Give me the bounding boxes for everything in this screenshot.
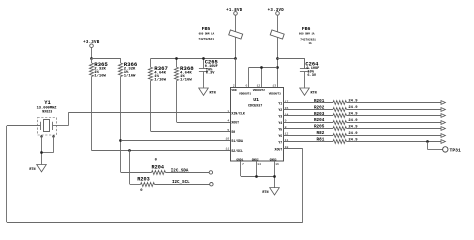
wire R203 to connector (347, 115, 442, 117)
capacitor C264 (300, 58, 309, 87)
pin label VDDOUT3 (269, 93, 281, 96)
svg-text:R204: R204 (152, 165, 164, 171)
pin number 17 (285, 99, 289, 103)
junction vddout2 (260, 66, 263, 69)
wire R205 to connector (347, 128, 442, 130)
ferrite bead FB5 (229, 30, 243, 39)
resistor R366 (118, 58, 122, 76)
off-page arrow Y1 (441, 101, 445, 105)
svg-text:FB6: FB6 (302, 26, 311, 32)
svg-text:12: 12 (257, 83, 261, 87)
wire R367 to S0 (150, 81, 152, 132)
wire XIN (68, 112, 230, 114)
svg-text:13: 13 (272, 83, 276, 87)
svg-text:Y6: Y6 (278, 134, 282, 138)
svg-text:1/16W: 1/16W (94, 74, 106, 79)
svg-text:R205: R205 (314, 125, 325, 130)
wire R81 to connector (347, 141, 442, 143)
svg-text:11: 11 (225, 147, 229, 151)
svg-text:R203: R203 (314, 112, 325, 117)
pin label S0 (231, 130, 235, 134)
svg-text:16: 16 (275, 162, 279, 166)
off-page arrow Y6 (441, 134, 445, 138)
pin label GND1 (236, 158, 243, 161)
svg-text:Y1: Y1 (44, 100, 50, 106)
svg-text:R201: R201 (314, 99, 325, 104)
wire pullup bus left (91, 58, 121, 60)
wire I2C_SCL (155, 184, 210, 186)
wire R202 to connector (347, 109, 442, 111)
pin number 3 (227, 109, 229, 113)
ground U1 (262, 188, 279, 196)
wire R201 to connector (347, 102, 442, 104)
wire S0 (151, 131, 230, 133)
junction gnd2 (255, 175, 258, 178)
pin label GND2 (252, 158, 259, 161)
label R201 (314, 99, 325, 104)
svg-text:GND3: GND3 (270, 158, 277, 161)
svg-text:14: 14 (257, 162, 261, 166)
resistor R201 (333, 101, 347, 105)
label R81 (317, 138, 325, 143)
value R81 24.9 (348, 138, 358, 142)
pin number 16 (275, 162, 279, 166)
off-page arrow Y4 (441, 121, 445, 125)
svg-text:VDD: VDD (231, 89, 236, 92)
svg-text:I2C_SCL: I2C_SCL (172, 181, 190, 185)
wire SCL drop (129, 150, 131, 184)
label C265 (205, 59, 218, 75)
wire vddout row (248, 68, 277, 88)
svg-text:XOUT: XOUT (275, 147, 283, 151)
label R367 (154, 65, 168, 82)
svg-text:2: 2 (233, 83, 235, 87)
wire Y6 out (284, 135, 334, 137)
value R204 24.9 (348, 119, 358, 123)
label C264 (305, 62, 319, 78)
resistor R203 (333, 114, 347, 118)
svg-text:1/16W: 1/16W (124, 74, 136, 79)
pin number 18 (285, 145, 289, 149)
junction FB6 bus (276, 57, 279, 60)
pin label VDD (231, 89, 236, 92)
svg-text:S1/SDA: S1/SDA (231, 139, 243, 143)
junction FB5 bus (234, 57, 237, 60)
label FB5 (198, 26, 214, 41)
wire FB5 to VDD pin (235, 58, 237, 87)
svg-text:R81: R81 (317, 138, 325, 143)
svg-text:4: 4 (227, 118, 229, 122)
svg-text:S0: S0 (231, 130, 235, 134)
svg-text:NX823: NX823 (42, 109, 52, 113)
pin number 14 (285, 112, 289, 116)
wire Y3 out (284, 115, 334, 117)
junction SDA (119, 139, 122, 142)
svg-text:FB5: FB5 (202, 26, 211, 32)
off-page arrow Y5 (441, 127, 445, 131)
ground C264 (300, 88, 317, 96)
label R365 (94, 61, 108, 78)
resistor R203 (130, 183, 155, 187)
wire Y4 out (284, 122, 334, 124)
wire FB6 vertical (277, 15, 279, 87)
wire S1/SDA (121, 140, 230, 142)
label R366 (124, 61, 138, 78)
junction +3.3VB bus (90, 57, 93, 60)
svg-text:TP31: TP31 (450, 147, 461, 153)
junction gnd3 (273, 175, 276, 178)
label FB6 (299, 26, 316, 45)
off-page arrow Y7 (441, 140, 445, 144)
pin number 11 (285, 138, 289, 142)
svg-text:VDDOUT3: VDDOUT3 (269, 93, 281, 96)
svg-text:R204: R204 (314, 118, 325, 123)
svg-text:XOUT: XOUT (231, 121, 239, 125)
ground Y1 (29, 165, 46, 173)
value R82 24.9 (348, 132, 358, 136)
svg-text:1/16W: 1/16W (154, 77, 166, 82)
pin label GND3 (270, 158, 277, 161)
pin number 8 (285, 125, 287, 129)
ferrite bead FB6 (270, 30, 284, 39)
junction C265 bus (202, 57, 205, 60)
svg-text:1A: 1A (309, 42, 313, 45)
crystal Y1 (38, 118, 57, 136)
pin label VDDOUT2 (253, 89, 265, 92)
svg-text:R203: R203 (137, 177, 149, 183)
resistor R365 (89, 58, 93, 76)
wire I2C_SDA (166, 172, 210, 174)
wire Y1 out (284, 102, 334, 104)
svg-text:R82: R82 (317, 131, 325, 136)
off-page arrow Y3 (441, 114, 445, 118)
resistor R367 (148, 58, 152, 80)
net label I2C_SDA (171, 169, 189, 173)
label R203 (314, 112, 325, 117)
node I2C_SDA open (209, 171, 212, 174)
wire Y7 out (284, 141, 334, 143)
capacitor C265 (199, 58, 208, 87)
pin label Y7 (278, 141, 282, 145)
pin number 14 (257, 162, 261, 166)
pin label Y4 (278, 121, 282, 125)
svg-text:6.3V: 6.3V (206, 72, 215, 76)
pin label Y1 (278, 102, 282, 106)
wire TP31 (427, 142, 442, 150)
wire U1 gnd (241, 161, 275, 188)
value R205 24.9 (348, 125, 358, 129)
label R204 (314, 118, 325, 123)
svg-text:VDDOUT1: VDDOUT1 (239, 93, 251, 96)
wire +3.3VB to bus (91, 48, 93, 59)
pin label VDDOUT1 (239, 93, 251, 96)
resistor R81 (333, 140, 347, 144)
label R203 (137, 177, 149, 194)
pin number 4 (227, 118, 229, 122)
value R202 24.9 (348, 106, 358, 110)
pin number 6 (245, 83, 247, 87)
junction FB6 vddout row (276, 66, 279, 69)
svg-text:Y4: Y4 (278, 121, 282, 125)
pin number 12 (285, 132, 289, 136)
wire crystal left lead (7, 125, 40, 127)
off-page arrow Y2 (441, 108, 445, 112)
resistor R82 (333, 134, 347, 138)
wire R365 to SCL (91, 77, 93, 151)
svg-text:10: 10 (225, 137, 229, 141)
resistor R368 (174, 58, 178, 80)
pin label XOUT (231, 121, 239, 125)
svg-text:GND2: GND2 (252, 158, 259, 161)
wire pin4 (177, 122, 230, 124)
wire Y2 out (284, 109, 334, 111)
power symbol +3.3VD (268, 9, 285, 15)
svg-text:0: 0 (140, 189, 143, 193)
svg-text:Y3: Y3 (278, 115, 282, 119)
power symbol +3.3VB (83, 41, 100, 48)
pin number 5 (227, 128, 229, 132)
node I2C_SCL open (210, 183, 213, 186)
pin label S1/SDA (231, 139, 243, 143)
pin label S2/SCL (231, 149, 243, 153)
label R82 (317, 131, 325, 136)
svg-text:0: 0 (155, 159, 158, 163)
pin number 13 (272, 83, 276, 87)
label R202 (314, 105, 325, 110)
svg-text:S2/SCL: S2/SCL (231, 149, 243, 153)
svg-text:CDCE937: CDCE937 (248, 105, 262, 109)
svg-text:VDDOUT2: VDDOUT2 (253, 89, 265, 92)
pin number 11 (225, 147, 229, 151)
wire R204 to connector (347, 122, 442, 124)
wire top bus A (151, 58, 236, 60)
svg-text:6: 6 (245, 83, 247, 87)
label R368 (180, 65, 194, 82)
pin label Y5 (278, 128, 282, 132)
svg-text:600 OHM 1A: 600 OHM 1A (199, 32, 215, 35)
pin number 12 (257, 83, 261, 87)
svg-text:600 OHM 1A: 600 OHM 1A (299, 32, 315, 35)
resistor R202 (333, 108, 347, 112)
power symbol +1.8VD (226, 9, 243, 15)
pin label XIN/CLK (231, 112, 244, 116)
wire crystal right lead (53, 113, 69, 126)
wire R368 to pin4 (176, 81, 178, 122)
svg-text:U1: U1 (253, 97, 259, 103)
svg-text:RTN: RTN (29, 168, 35, 172)
net label I2C_SCL (172, 181, 190, 185)
junction SCL (128, 149, 131, 152)
junction TP31 (426, 140, 429, 143)
pin number 10 (225, 137, 229, 141)
svg-text:Y5: Y5 (278, 128, 282, 132)
wire crystal gnd (41, 136, 53, 164)
svg-text:I2C_SDA: I2C_SDA (171, 169, 189, 173)
pin number 2 (233, 83, 235, 87)
pin number 15 (285, 106, 289, 110)
svg-text:Y1: Y1 (278, 102, 282, 106)
svg-text:Y7: Y7 (278, 141, 282, 145)
pin number 7 (242, 162, 244, 166)
wire bus B (277, 58, 304, 69)
pin label Y6 (278, 134, 282, 138)
testpoint TP31 (443, 147, 461, 154)
svg-text:R202: R202 (314, 105, 325, 110)
label R204 (152, 159, 164, 171)
wire Y5 out (284, 128, 334, 130)
junction crystal gnd (40, 151, 43, 154)
pin number 9 (285, 119, 287, 123)
svg-text:RTN: RTN (311, 92, 317, 96)
svg-text:742792621: 742792621 (198, 38, 214, 41)
crystal ground pads (40, 135, 54, 137)
svg-text:XIN/CLK: XIN/CLK (231, 112, 244, 116)
pin label Y3 (278, 115, 282, 119)
wire S2/SCL (91, 150, 230, 152)
wire R82 to connector (347, 135, 442, 137)
svg-text:RTN: RTN (262, 191, 268, 195)
wire R366 to SDA and R204 (120, 77, 122, 173)
ground C265 (199, 88, 216, 96)
svg-text:7: 7 (242, 162, 244, 166)
op-amp U1 body (231, 88, 284, 162)
resistor R204 (333, 121, 347, 125)
junction R368 bus (175, 57, 178, 60)
svg-text:Y2: Y2 (278, 108, 282, 112)
pin label XOUT right (275, 147, 283, 151)
label U1 (248, 97, 262, 108)
wire XOUT loop (7, 126, 303, 223)
svg-text:1/16W: 1/16W (180, 77, 192, 82)
label Y1 (37, 100, 58, 113)
resistor R205 (333, 127, 347, 131)
pin label Y2 (278, 108, 282, 112)
svg-text:6.3V: 6.3V (307, 74, 316, 78)
value R201 24.9 (348, 100, 358, 104)
svg-text:RTN: RTN (210, 92, 216, 96)
wire FB5 vertical (235, 15, 237, 58)
svg-text:GND1: GND1 (236, 158, 243, 161)
resistor R204 (121, 171, 166, 175)
value R203 24.9 (348, 113, 358, 117)
label R205 (314, 125, 325, 130)
